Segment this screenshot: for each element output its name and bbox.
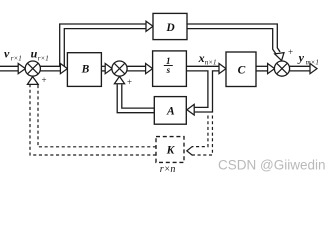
svg-text:r×1: r×1 <box>11 54 22 62</box>
svg-text:v: v <box>4 47 10 61</box>
svg-text:m×1: m×1 <box>306 58 319 66</box>
svg-text:+: + <box>288 47 293 57</box>
svg-text:r×n: r×n <box>160 164 176 175</box>
svg-text:+: + <box>127 77 132 87</box>
svg-text:CSDN @Giiwedin: CSDN @Giiwedin <box>218 158 325 173</box>
svg-text:s: s <box>166 65 171 75</box>
svg-text:B: B <box>81 64 90 76</box>
svg-text:y: y <box>297 51 305 65</box>
svg-text:u: u <box>31 47 38 61</box>
svg-text:x: x <box>198 51 205 65</box>
svg-text:r×1: r×1 <box>38 54 49 62</box>
svg-text:n×1: n×1 <box>205 59 217 67</box>
svg-text:C: C <box>238 65 246 77</box>
svg-text:A: A <box>166 106 175 118</box>
svg-text:+: + <box>42 75 47 85</box>
svg-text:D: D <box>165 22 175 34</box>
svg-text:K: K <box>166 145 176 157</box>
